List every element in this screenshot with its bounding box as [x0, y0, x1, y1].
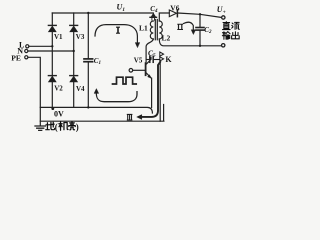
capacitor C4 (stray) — [150, 14, 157, 21]
terminal output minus — [222, 44, 225, 47]
label loop III — [127, 114, 133, 120]
svg-text:L1: L1 — [139, 23, 148, 32]
svg-text:V6: V6 — [170, 4, 179, 13]
text DC output line 1 (zhi liu) — [223, 22, 240, 30]
wire top rail U1 — [52, 12, 153, 14]
capacitor C2 — [196, 14, 204, 46]
node L junction — [51, 45, 53, 47]
loop I arrow — [95, 25, 140, 48]
text DC output line 2 (shu chu) — [222, 32, 239, 40]
label loop I — [116, 27, 120, 33]
chassis outline — [40, 105, 164, 122]
svg-text:K: K — [165, 55, 172, 64]
diode V6 — [169, 10, 177, 17]
svg-text:V3: V3 — [76, 33, 85, 41]
wire N — [28, 50, 74, 52]
svg-text:): ) — [76, 122, 79, 132]
diode V4 — [70, 76, 78, 82]
terminal L — [26, 45, 29, 48]
diode V2 — [48, 76, 56, 82]
wire PE to earth — [28, 57, 40, 125]
svg-text:(: ( — [55, 122, 58, 132]
node 0V junction — [51, 107, 54, 110]
node C1 bottom — [87, 106, 89, 108]
svg-text:L2: L2 — [162, 33, 171, 42]
node N junction — [73, 50, 75, 52]
arrowheads at node K — [160, 52, 164, 61]
svg-text:V5: V5 — [134, 56, 143, 64]
diode V3 — [70, 25, 78, 31]
svg-text:V2: V2 — [54, 84, 63, 92]
transistor V5 — [129, 57, 152, 107]
terminal PE — [25, 56, 28, 59]
terminal output plus — [222, 16, 225, 19]
node C1 top — [87, 12, 89, 14]
transformer core — [155, 20, 157, 40]
capacitor C1 — [84, 13, 93, 107]
wire chassis connection vertical — [159, 62, 161, 122]
wire secondary top rail — [159, 13, 221, 21]
label loop II — [177, 24, 183, 29]
wire 0V rail — [40, 107, 152, 113]
terminal N — [25, 49, 28, 52]
diode V1 — [48, 25, 56, 31]
transformer secondary L2 — [159, 21, 162, 39]
loop III arc lower — [94, 89, 137, 102]
wire secondary bottom rail — [159, 39, 221, 46]
waveform square wave at base — [113, 77, 137, 84]
wire bridge branch B — [73, 13, 75, 107]
transformer T primary L1 — [146, 21, 153, 63]
svg-text:V1: V1 — [54, 33, 63, 41]
svg-text:0V: 0V — [54, 110, 64, 119]
wire bridge branch A — [51, 13, 53, 107]
capacitor C5 (stray) — [146, 56, 160, 62]
wire L — [29, 45, 52, 47]
text ground chassis (di ji ke) — [46, 122, 75, 131]
svg-text:V4: V4 — [76, 85, 85, 93]
ground (chassis earth symbol) — [35, 126, 45, 130]
loop II arrow — [184, 22, 196, 34]
svg-text:PE: PE — [11, 54, 21, 63]
node C2 bottom — [199, 45, 201, 47]
node C2 top — [199, 13, 201, 15]
loop III arrow — [137, 62, 160, 119]
text parens for ji ke — [55, 122, 79, 132]
